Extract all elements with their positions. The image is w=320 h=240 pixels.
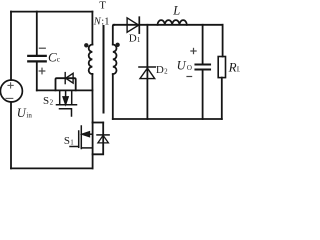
label S1 xyxy=(64,135,74,147)
transformer core xyxy=(103,26,105,113)
svg-text:D: D xyxy=(156,64,164,76)
svg-text:1: 1 xyxy=(70,139,74,147)
label S2 xyxy=(43,95,54,107)
diode D2 (freewheeling, pointing up) xyxy=(139,67,155,79)
plus sign inside Uin xyxy=(8,83,13,88)
svg-text::1: :1 xyxy=(101,16,109,27)
svg-text:S: S xyxy=(64,135,70,147)
svg-text:in: in xyxy=(26,111,32,119)
svg-text:2: 2 xyxy=(164,68,168,76)
svg-text:c: c xyxy=(57,55,61,64)
transformer T primary top lead xyxy=(91,12,93,45)
transistor S2 (MOSFET, gate down) xyxy=(57,90,77,116)
label D1 xyxy=(129,33,141,45)
wire S1 body diode loop xyxy=(93,123,104,155)
minus sign above Cc xyxy=(39,47,45,49)
label D2 xyxy=(156,64,168,76)
label T xyxy=(99,0,106,11)
wire S2 clamp diode loop xyxy=(56,78,76,90)
svg-text:S: S xyxy=(43,95,49,107)
svg-text:U: U xyxy=(17,106,27,120)
wire D2 branch vertical xyxy=(146,25,148,119)
wire Cc branch vertical lower to S2 wire xyxy=(36,62,38,90)
label Cc xyxy=(48,49,61,64)
svg-text:L: L xyxy=(172,4,180,18)
polarity dot secondary xyxy=(115,43,119,47)
diode body of S1 (pointing up) xyxy=(97,135,109,143)
svg-text:1: 1 xyxy=(137,36,141,44)
wire S1 drain node horizontal xyxy=(93,122,104,124)
svg-text:R: R xyxy=(228,59,237,74)
diode D1 (pointing right) xyxy=(127,17,139,33)
wire secondary top lead xyxy=(113,25,114,45)
minus sign inside Uin xyxy=(6,97,13,99)
capacitor output filter xyxy=(196,65,211,70)
plus sign below Cc xyxy=(39,68,45,74)
svg-text:2: 2 xyxy=(50,98,54,106)
transistor S1 (MOSFET, gate left) xyxy=(70,126,93,149)
label L xyxy=(172,4,180,18)
resistor RL xyxy=(218,57,225,78)
wire RL branch vertical upper xyxy=(222,25,224,57)
polarity dot primary xyxy=(84,43,88,47)
svg-text:U: U xyxy=(177,58,187,72)
wire Cc branch vertical upper xyxy=(36,12,38,55)
wire secondary top horizontal xyxy=(114,24,223,26)
svg-text:O: O xyxy=(187,64,192,72)
plus sign output xyxy=(191,48,196,53)
wire left vertical upper (Uin top to corner) xyxy=(10,12,12,80)
wire left vertical lower (Uin bottom to rail) xyxy=(10,102,12,168)
svg-text:L: L xyxy=(237,65,240,74)
wire secondary bottom lead xyxy=(112,74,114,119)
voltage source Uin xyxy=(0,80,22,102)
minus sign output xyxy=(187,76,192,78)
transformer T secondary winding xyxy=(113,45,117,75)
capacitor Cc xyxy=(28,56,45,62)
wire S2 horizontal (Cc to primary bottom lead) xyxy=(37,89,93,91)
wire bottom rail secondary side xyxy=(113,118,222,120)
label Uin xyxy=(17,106,33,120)
wire output capacitor branch lower xyxy=(202,71,204,119)
wire primary bottom lead (winding to S1 drain node) xyxy=(91,74,93,123)
svg-text:T: T xyxy=(99,0,106,11)
svg-text:D: D xyxy=(129,33,137,45)
label N:1 xyxy=(93,16,110,27)
label RL xyxy=(228,59,242,74)
wire top-left horizontal from Uin+ to transformer primary xyxy=(11,11,92,13)
label UO xyxy=(177,58,192,72)
diode of S2 (antiparallel, pointing left) xyxy=(65,73,73,84)
wire bottom rail primary side xyxy=(11,167,93,169)
wire RL branch vertical lower xyxy=(221,78,223,119)
wire output capacitor branch upper xyxy=(202,25,204,64)
transformer T primary winding xyxy=(89,45,93,75)
inductor L xyxy=(158,20,187,25)
wire S1 main vertical (drain to source to rail) xyxy=(92,123,94,169)
